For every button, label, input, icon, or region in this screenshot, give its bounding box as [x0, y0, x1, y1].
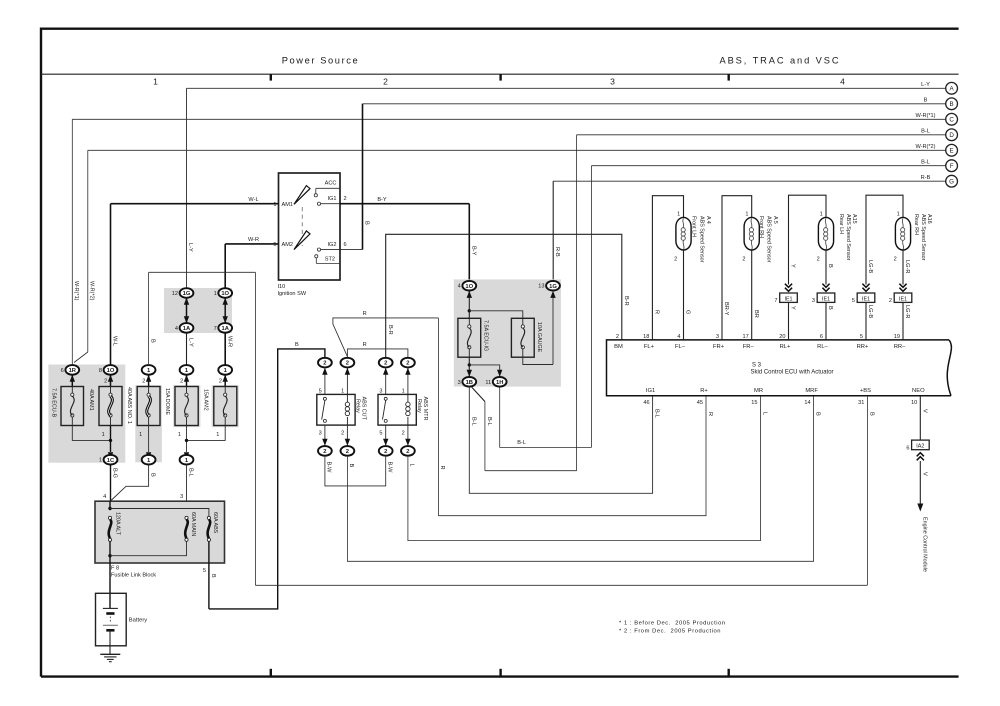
svg-text:W-R: W-R — [226, 336, 232, 347]
grey band DOME fuse — [173, 385, 200, 427]
svg-text:45: 45 — [697, 400, 703, 406]
svg-text:Relay: Relay — [354, 399, 360, 413]
wire B-G (1C to fusible link) — [110, 465, 112, 501]
svg-text:Engine Control Module: Engine Control Module — [922, 517, 928, 572]
svg-text:3: 3 — [458, 380, 461, 386]
svg-text:1: 1 — [216, 432, 219, 438]
connector 11 1H — [493, 377, 507, 387]
fuse block grey box (ECU-IG GAUGE) — [454, 279, 561, 386]
ignition AM1 lever — [294, 186, 310, 205]
wire B-L (1B to IG1) — [469, 387, 652, 494]
svg-text:B: B — [815, 412, 821, 416]
wire battery to F8 — [109, 557, 111, 609]
svg-text:1: 1 — [897, 212, 900, 218]
svg-text:2: 2 — [341, 430, 344, 436]
wire +BS route — [866, 396, 868, 586]
svg-text:L-Y: L-Y — [188, 338, 194, 347]
svg-text:Relay: Relay — [416, 399, 422, 413]
svg-text:2: 2 — [616, 334, 619, 340]
grey band AM2 fuse — [212, 385, 239, 427]
wire 60A ABS output — [208, 541, 210, 609]
svg-text:3: 3 — [379, 388, 382, 394]
svg-text:4: 4 — [840, 77, 845, 87]
wire GAUGE to 13 1G — [523, 357, 553, 364]
svg-text:B-W: B-W — [326, 462, 332, 474]
arrow into 11 1H — [497, 370, 502, 377]
terminal G wire R-B — [553, 180, 946, 182]
svg-text:1: 1 — [214, 291, 217, 297]
svg-text:13: 13 — [538, 284, 544, 290]
wire B-L (DOME bottom to 60A MAIN) — [186, 465, 188, 517]
wire L (MTR pin2 to MR) — [408, 396, 761, 541]
svg-text:B: B — [924, 98, 928, 104]
node ECU-IG bottom — [468, 357, 470, 377]
wire LG-R (A16 pin2 to IE1) — [902, 250, 904, 285]
svg-text:Front RH: Front RH — [758, 216, 764, 238]
connector 1 (DOME top) — [180, 365, 194, 375]
svg-text:14: 14 — [804, 400, 810, 406]
svg-text:ABS Speed Sensor: ABS Speed Sensor — [920, 214, 926, 261]
pass-through arrows 1G-1A — [186, 298, 188, 323]
svg-text:5: 5 — [852, 298, 855, 304]
wire V NEO to IA2 — [919, 396, 921, 440]
svg-text:L-Y: L-Y — [187, 243, 193, 252]
svg-text:3: 3 — [319, 430, 322, 436]
battery box — [96, 593, 127, 646]
ABS CUT contact — [323, 397, 326, 400]
svg-text:A15: A15 — [851, 214, 857, 224]
wire B (+BS feed from ABS NO.1 fuse) — [148, 272, 150, 365]
wire LG-R (IE1 to RR-) — [902, 302, 904, 340]
arrow into 3 1B — [467, 370, 472, 377]
svg-text:1: 1 — [745, 212, 748, 218]
terminal circle E — [946, 144, 958, 156]
connector 1 (AM2 top) — [218, 365, 232, 375]
svg-text:120A ALT: 120A ALT — [115, 512, 121, 536]
wire R down from relays to R+ — [437, 318, 439, 516]
svg-text:Ignition SW: Ignition SW — [278, 291, 307, 297]
svg-text:6: 6 — [906, 446, 909, 452]
svg-text:B: B — [348, 464, 354, 468]
svg-text:ACC: ACC — [325, 180, 337, 186]
svg-text:ST2: ST2 — [325, 257, 335, 263]
svg-text:B-R: B-R — [623, 296, 629, 306]
connector 3 1B — [462, 377, 476, 387]
svg-text:B-L: B-L — [921, 160, 930, 166]
chevrons into IA2 — [917, 453, 924, 461]
svg-text:AM2: AM2 — [282, 242, 294, 248]
svg-text:15: 15 — [751, 400, 757, 406]
svg-text:FL+: FL+ — [644, 344, 655, 350]
svg-text:B: B — [827, 306, 833, 310]
svg-text:10: 10 — [911, 400, 917, 406]
wire LG-B (IE1 to RR+) — [865, 302, 867, 340]
svg-text:60A MAIN: 60A MAIN — [190, 512, 196, 536]
svg-text:RR+: RR+ — [857, 344, 869, 350]
wire Y (IE1 to RL+) — [788, 302, 790, 340]
svg-text:Y: Y — [790, 264, 796, 268]
svg-text:* 2 : From Dec. 2005 Producti: * 2 : From Dec. 2005 Production — [619, 629, 721, 635]
terminal circle C — [946, 113, 958, 125]
svg-text:W-R(*1): W-R(*1) — [915, 113, 935, 119]
fuse 7.5A ECU-B — [61, 387, 84, 426]
svg-text:1: 1 — [102, 432, 105, 438]
svg-text:B-Y: B-Y — [377, 197, 387, 203]
ignition switch I10 box — [279, 173, 341, 280]
wire B-R (ABS MTR pin 3 to BM) — [386, 234, 622, 357]
header divider line — [41, 73, 959, 75]
svg-text:2: 2 — [344, 196, 347, 202]
svg-text:W-R: W-R — [248, 237, 259, 243]
junction block J/B connector box — [164, 288, 232, 333]
grey band ABS NO.1 fuse — [135, 385, 162, 462]
svg-text:6: 6 — [344, 242, 347, 248]
ignition ST2 terminal — [315, 255, 318, 258]
svg-text:G: G — [949, 178, 954, 185]
svg-text:B-L: B-L — [470, 417, 476, 426]
F8 internal top bus — [109, 501, 111, 510]
svg-text:B: B — [869, 412, 875, 416]
junction connector 3 IE1 — [817, 293, 835, 302]
svg-text:ABS, TRAC and VSC: ABS, TRAC and VSC — [719, 56, 840, 66]
svg-text:B: B — [295, 342, 299, 348]
svg-text:BR: BR — [753, 310, 759, 318]
svg-text:2: 2 — [742, 257, 745, 263]
wire W-R (AM2 to 1 1O) — [225, 243, 278, 245]
svg-text:Fusible Link Block: Fusible Link Block — [111, 572, 156, 578]
svg-text:V: V — [921, 472, 927, 476]
svg-text:2: 2 — [142, 378, 145, 384]
connector 4 1O — [462, 281, 476, 291]
wire R (relay R+ net) — [333, 318, 439, 357]
svg-text:B-L: B-L — [921, 129, 930, 135]
connector 13 1G — [546, 281, 560, 291]
svg-text:B: B — [363, 221, 369, 225]
terminal circle G — [946, 175, 958, 187]
svg-text:4: 4 — [458, 284, 461, 290]
wire AM1 bottom to 1C — [110, 426, 112, 453]
svg-text:2: 2 — [104, 378, 107, 384]
svg-text:R: R — [654, 310, 660, 314]
svg-text:11: 11 — [485, 380, 491, 386]
wire V to engine control module — [919, 461, 921, 505]
svg-text:B-L: B-L — [486, 417, 492, 426]
svg-text:W-R(*1): W-R(*1) — [73, 281, 79, 301]
relay bottom connectors 2 — [318, 446, 332, 456]
terminal E wire W-R(*2) — [88, 149, 946, 151]
svg-text:Rear RH: Rear RH — [913, 214, 919, 235]
node ECU-IG top — [468, 309, 471, 312]
svg-text:FR–: FR– — [743, 344, 755, 350]
relay top connectors 2 — [318, 358, 332, 368]
ABS speed sensor A4 — [676, 217, 691, 250]
fuse 15A AM2 — [214, 387, 237, 426]
svg-text:2: 2 — [889, 298, 892, 304]
svg-text:20: 20 — [779, 334, 785, 340]
svg-text:F: F — [950, 163, 954, 170]
wire ABS NO.1 bottom — [148, 426, 150, 453]
svg-text:IE1: IE1 — [862, 296, 870, 302]
svg-text:BR-Y: BR-Y — [723, 302, 729, 316]
wire B vertical (B to IG2) — [362, 104, 364, 250]
svg-text:5: 5 — [319, 388, 322, 394]
svg-text:2: 2 — [346, 361, 349, 367]
svg-text:LG-R: LG-R — [904, 260, 910, 273]
svg-text:Battery: Battery — [129, 617, 147, 623]
svg-text:2: 2 — [894, 257, 897, 263]
svg-text:B: B — [150, 473, 156, 477]
svg-text:ABS Speed Sensor: ABS Speed Sensor — [845, 214, 851, 261]
ground symbol — [100, 653, 120, 655]
svg-text:ABS Speed Sensor: ABS Speed Sensor — [699, 216, 705, 263]
connector 4 1A — [180, 323, 194, 333]
fuse block grey box (ECU-B AM1) — [48, 365, 125, 463]
svg-text:1: 1 — [153, 77, 158, 87]
svg-text:40A AM1: 40A AM1 — [88, 389, 94, 411]
terminal D wire B-L — [577, 134, 946, 136]
connector 1 (DOME bottom) — [180, 455, 194, 465]
fuse 15A DOME — [175, 387, 198, 426]
svg-text:1: 1 — [402, 388, 405, 394]
svg-text:1: 1 — [139, 432, 142, 438]
svg-text:1A: 1A — [183, 326, 191, 332]
svg-text:B-L: B-L — [188, 468, 194, 477]
svg-text:5: 5 — [379, 430, 382, 436]
arrow to engine control module — [917, 504, 923, 512]
relay ABS CUT box — [317, 394, 355, 425]
arrow into 4 1O — [468, 291, 470, 319]
ABS CUT coil — [346, 394, 348, 402]
svg-text:W-R(*2): W-R(*2) — [915, 144, 935, 150]
ABS speed sensor A5 — [744, 217, 759, 250]
terminal circle A — [946, 82, 958, 94]
svg-text:1O: 1O — [221, 291, 229, 297]
svg-text:7.5A ECU-IG: 7.5A ECU-IG — [482, 320, 488, 351]
battery symbol — [103, 607, 118, 609]
svg-text:B-G: B-G — [112, 468, 118, 478]
svg-text:A16: A16 — [926, 214, 932, 224]
svg-text:L-Y: L-Y — [921, 82, 930, 88]
wire R-B vertical (G to 13 1G) — [552, 181, 554, 281]
svg-text:RL–: RL– — [817, 344, 828, 350]
svg-text:2: 2 — [402, 430, 405, 436]
column ticks top — [270, 74, 272, 80]
svg-text:R-B: R-B — [554, 247, 560, 257]
wire B (CUT pin2 to MRF) — [347, 396, 813, 562]
svg-text:LG-B: LG-B — [867, 305, 873, 318]
svg-text:15A AM2: 15A AM2 — [203, 389, 209, 411]
ABS MTR contact — [384, 397, 387, 400]
relay ABS MTR box — [378, 394, 416, 425]
svg-text:FL–: FL– — [675, 344, 686, 350]
svg-text:8: 8 — [99, 368, 102, 374]
fuse 10A GAUGE — [511, 318, 534, 357]
svg-text:1G: 1G — [549, 284, 557, 290]
svg-text:AM1: AM1 — [282, 202, 294, 208]
svg-text:IE1: IE1 — [822, 296, 830, 302]
svg-text:Skid Control ECU with Actuator: Skid Control ECU with Actuator — [751, 369, 834, 375]
wire B-L route D to 1B — [485, 470, 577, 472]
ignition dashed link — [301, 207, 303, 246]
svg-text:* 1 : Before Dec. 2005 Produc: * 1 : Before Dec. 2005 Production — [619, 621, 726, 627]
svg-text:1R: 1R — [69, 368, 77, 374]
svg-text:IA2: IA2 — [916, 444, 924, 450]
svg-text:C: C — [949, 117, 954, 124]
svg-text:1H: 1H — [496, 380, 503, 386]
svg-text:B: B — [827, 264, 833, 268]
wire ECU-B bottom to junction — [72, 426, 110, 441]
svg-text:2: 2 — [406, 361, 409, 367]
fuse 7.5A ECU-IG — [458, 318, 481, 357]
fuse 60A ABS — [207, 516, 210, 519]
svg-text:2: 2 — [323, 361, 326, 367]
wire AM2 bottom to DOME junction — [187, 426, 226, 441]
junction connector 7 IE1 — [780, 293, 798, 302]
svg-text:B-L: B-L — [517, 440, 526, 446]
connector 6 1R — [65, 365, 79, 375]
connector 12 1G — [180, 288, 194, 298]
connector 8 1O — [104, 365, 118, 375]
svg-text:12: 12 — [172, 291, 178, 297]
svg-text:R+: R+ — [700, 388, 708, 394]
svg-text:B-L: B-L — [654, 409, 660, 418]
svg-text:FR+: FR+ — [713, 344, 725, 350]
svg-text:3: 3 — [610, 77, 615, 87]
junction connector 5 IE1 — [857, 293, 875, 302]
svg-text:Front LH: Front LH — [691, 216, 697, 237]
terminal F wire B-L — [591, 165, 945, 167]
wire R (to R+) — [438, 396, 706, 516]
terminal circle D — [946, 129, 958, 141]
ABS speed sensor A4 loop — [652, 196, 683, 340]
ABS speed sensor A5 loop — [722, 196, 752, 340]
wire W-R(*1) vertical (C to 1R) — [71, 119, 73, 365]
svg-text:B-Y: B-Y — [470, 246, 476, 256]
terminal C wire W-R(*1) — [72, 118, 945, 120]
wire B-L vertical (D) — [576, 135, 578, 471]
svg-text:3: 3 — [180, 494, 183, 500]
svg-text:1: 1 — [820, 212, 823, 218]
wire W-L (AM1 to 8 1O) — [111, 203, 279, 205]
svg-text:17: 17 — [742, 334, 748, 340]
svg-text:ABS Speed Sensor: ABS Speed Sensor — [766, 216, 772, 263]
svg-text:V: V — [921, 409, 927, 413]
wire BR (A5 to FR-) — [751, 250, 753, 340]
svg-text:7.5A ECU-B: 7.5A ECU-B — [51, 388, 57, 417]
svg-text:2: 2 — [383, 77, 388, 87]
svg-text:A 5: A 5 — [772, 216, 778, 224]
fuse 120A ALT — [108, 516, 111, 519]
svg-text:2: 2 — [384, 449, 387, 455]
svg-text:L: L — [409, 464, 415, 467]
svg-text:19: 19 — [894, 334, 900, 340]
arrows into relay bottom connectors — [324, 425, 326, 446]
svg-text:7: 7 — [774, 298, 777, 304]
svg-text:G: G — [685, 310, 691, 314]
wire R (relay pins link) — [347, 349, 408, 357]
arrow into 13 1G — [552, 291, 554, 365]
svg-text:B-W: B-W — [386, 462, 392, 474]
wire L-Y vertical (A to 1G) — [186, 88, 188, 288]
svg-text:4: 4 — [103, 494, 106, 500]
svg-text:LG-R: LG-R — [904, 305, 910, 318]
svg-text:1: 1 — [178, 432, 181, 438]
svg-text:5: 5 — [273, 242, 276, 248]
svg-text:B: B — [150, 339, 156, 343]
svg-text:RL+: RL+ — [780, 344, 791, 350]
svg-text:MRF: MRF — [805, 388, 818, 394]
svg-text:1: 1 — [677, 212, 680, 218]
svg-text:40A ABS NO. 1: 40A ABS NO. 1 — [126, 387, 132, 424]
svg-text:5: 5 — [860, 334, 863, 340]
svg-text:6: 6 — [820, 334, 823, 340]
svg-text:1O: 1O — [107, 368, 115, 374]
svg-text:B: B — [950, 101, 954, 108]
wire B (A15 pin2 to IE1) — [825, 250, 827, 285]
svg-text:1: 1 — [99, 458, 102, 464]
svg-text:Y: Y — [790, 306, 796, 310]
svg-text:R-B: R-B — [921, 175, 931, 181]
ABS speed sensor A15 — [818, 217, 833, 250]
svg-text:1: 1 — [341, 388, 344, 394]
svg-text:NEO: NEO — [912, 388, 925, 394]
svg-text:B-R: B-R — [387, 325, 393, 335]
column ticks bottom — [270, 669, 272, 677]
svg-text:1B: 1B — [466, 380, 473, 386]
svg-text:4: 4 — [175, 326, 178, 332]
arrows into relay top connectors — [324, 368, 326, 395]
svg-text:3: 3 — [716, 334, 719, 340]
svg-text:S 3: S 3 — [752, 363, 762, 369]
wire B (60A ABS to ABS CUT relay pin 5) — [209, 349, 325, 609]
svg-text:3: 3 — [812, 298, 815, 304]
svg-text:1O: 1O — [465, 284, 473, 290]
svg-text:R: R — [439, 466, 445, 470]
svg-text:IE1: IE1 — [899, 296, 907, 302]
wire W-R(*2) vertical (E to 1R) — [87, 150, 89, 352]
wire to GAUGE fuse — [469, 311, 523, 319]
connector 1 (ABS NO.1 top) — [142, 365, 156, 375]
svg-text:1A: 1A — [221, 326, 229, 332]
svg-text:F 8: F 8 — [111, 565, 119, 571]
svg-text:7: 7 — [214, 326, 217, 332]
wire B-L route F to 1H — [500, 447, 592, 449]
fusible link block F8 grey box — [95, 501, 225, 563]
svg-text:BM: BM — [614, 344, 623, 350]
svg-text:W-L: W-L — [248, 197, 258, 203]
wire W-R (1A to AM2 fuse) — [224, 333, 226, 365]
svg-text:IE1: IE1 — [784, 296, 792, 302]
svg-text:W-R(*2): W-R(*2) — [89, 281, 95, 301]
svg-text:18: 18 — [643, 334, 649, 340]
svg-text:D: D — [949, 132, 954, 139]
fuse 40A AM1 — [99, 387, 122, 426]
wire G (A4 to FL-) — [683, 250, 685, 340]
svg-text:W-L: W-L — [112, 336, 118, 346]
svg-text:2: 2 — [406, 449, 409, 455]
svg-text:2: 2 — [180, 378, 183, 384]
fuse 60A MAIN — [185, 516, 188, 519]
terminal A wire L-Y — [187, 87, 946, 89]
wire B (ABS NO.1 bottom to fusible link pin 4) — [111, 465, 149, 501]
ABS speed sensor A16 — [895, 217, 910, 250]
svg-text:4: 4 — [677, 334, 680, 340]
skid control ECU S3 box — [607, 340, 952, 396]
svg-text:A 4: A 4 — [705, 216, 711, 224]
svg-text:E: E — [950, 148, 954, 155]
wire B-W tie (CUT pin3 - MTR pin5) — [325, 456, 386, 486]
svg-text:I10: I10 — [278, 284, 286, 290]
